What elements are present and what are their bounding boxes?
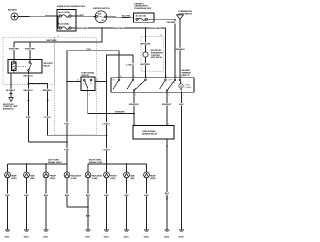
svg-text:BLK: BLK xyxy=(86,195,91,197)
svg-text:IG1: IG1 xyxy=(101,20,104,22)
combination light switch connector xyxy=(177,10,193,19)
label LT BLU on right column xyxy=(102,122,110,125)
svg-text:BLK: BLK xyxy=(44,195,49,197)
right side turn signal bulb (5W) xyxy=(124,164,136,230)
label PUR on riser xyxy=(86,48,92,51)
fuse No.42 (40A) xyxy=(57,23,76,30)
hazard warning switch xyxy=(111,69,194,92)
svg-text:LT BLU: LT BLU xyxy=(103,149,111,151)
label RED/BLK xyxy=(175,48,185,51)
connector tick xyxy=(9,93,12,95)
svg-text:WHT/GRN: WHT/GRN xyxy=(114,28,124,30)
svg-text:RED/BLU: RED/BLU xyxy=(24,76,34,78)
wire WHT/GRN into MICU xyxy=(145,28,147,52)
label WHT/GRN on feed line xyxy=(46,39,57,42)
fuse No.41 (100A) xyxy=(57,11,76,17)
svg-text:8: 8 xyxy=(181,76,182,78)
svg-text:No.42 (40A): No.42 (40A) xyxy=(58,23,69,26)
turn signal switch xyxy=(81,72,95,91)
MICU label xyxy=(151,50,164,59)
label BLK xyxy=(65,194,70,197)
wire right bus xyxy=(88,163,147,165)
label BLK xyxy=(144,194,149,197)
combination switch dashed outline xyxy=(55,38,97,135)
wire indicator ground merge xyxy=(67,206,88,208)
connector marks xyxy=(166,196,168,198)
connector dot xyxy=(166,145,168,147)
svg-text:LT BLU: LT BLU xyxy=(103,123,111,125)
svg-text:LT BLU: LT BLU xyxy=(44,117,52,119)
svg-text:T.4: T.4 xyxy=(57,36,59,38)
wire feed drop left into relay xyxy=(13,42,15,60)
wire YEL/RED fuse No.5 to hazard switch xyxy=(154,19,175,77)
svg-text:BLK: BLK xyxy=(5,195,10,197)
junction merge xyxy=(87,206,89,208)
svg-text:3: 3 xyxy=(168,94,169,96)
fuse No.5 (7.5A) box xyxy=(134,13,155,22)
svg-text:GRN/ORN: GRN/ORN xyxy=(115,112,125,114)
label WHT/RED xyxy=(140,63,151,66)
svg-text:5: 5 xyxy=(166,76,167,78)
svg-text:PUR: PUR xyxy=(64,149,69,151)
svg-text:G402: G402 xyxy=(24,235,30,238)
label RED/BLU xyxy=(43,89,53,92)
wire feed drop right into relay xyxy=(29,42,31,60)
svg-text:L: L xyxy=(83,84,84,86)
wire PUR branch join xyxy=(28,141,67,143)
label BLK xyxy=(44,194,49,197)
left turn indicator bulb (1.4W) xyxy=(64,164,82,207)
left side turn signal bulb (5W) xyxy=(24,164,36,230)
label BLK merged xyxy=(86,214,91,217)
right rear turn signal bulb (21W) xyxy=(144,164,157,230)
svg-text:BLU/YEL: BLU/YEL xyxy=(122,16,132,18)
svg-text:(5W): (5W) xyxy=(30,178,34,180)
label BLK xyxy=(86,194,91,197)
right turn indicator bulb (1.4W) xyxy=(85,164,103,230)
label WHT xyxy=(79,14,85,17)
ground G503 xyxy=(124,230,130,238)
svg-text:PUR: PUR xyxy=(86,49,91,51)
svg-text:BLK: BLK xyxy=(179,104,184,106)
wire PUR column riser to hazard switch xyxy=(67,51,119,164)
wire WHT/GRN drop to hazard switch xyxy=(165,28,167,78)
junction WHT/GRN to MICU xyxy=(145,27,147,29)
wire RED/BLU relay output xyxy=(27,71,29,142)
svg-text:BLK: BLK xyxy=(24,195,29,197)
label BLK xyxy=(5,194,10,197)
ground G401 xyxy=(5,230,11,238)
svg-text:G301: G301 xyxy=(43,236,49,238)
junction GRN/ORN xyxy=(133,113,135,115)
label WHT/GRN xyxy=(150,27,161,30)
svg-text:G401: G401 xyxy=(5,235,11,238)
svg-text:2: 2 xyxy=(135,94,136,96)
junction right column xyxy=(106,81,108,83)
junction xyxy=(106,163,108,165)
svg-text:(1.4W): (1.4W) xyxy=(92,177,98,180)
wire turn signal switch right wire xyxy=(95,81,107,83)
label GRN/ORN xyxy=(129,103,140,106)
right turn signal light group label xyxy=(89,160,103,165)
svg-text:BLK: BLK xyxy=(124,195,129,197)
svg-text:FUSE/RELAY BOX: FUSE/RELAY BOX xyxy=(135,7,153,10)
svg-text:G506: G506 xyxy=(179,236,185,238)
svg-text:PUR: PUR xyxy=(64,123,69,125)
wire WHT/GRN bus from fuse No.42 xyxy=(76,27,166,29)
svg-text:BLK: BLK xyxy=(165,193,170,195)
wire left bus xyxy=(8,163,68,165)
svg-text:RED/BLU: RED/BLU xyxy=(24,90,34,92)
label WHT/GRN xyxy=(9,48,20,51)
ground G301 xyxy=(43,230,49,238)
label BLK xyxy=(179,103,184,106)
junction xyxy=(126,163,128,165)
svg-text:No.5 (7.5A): No.5 (7.5A) xyxy=(136,14,146,17)
svg-text:GRN/ORN: GRN/ORN xyxy=(129,104,139,106)
svg-text:YEL/RED: YEL/RED xyxy=(166,22,175,24)
label BLU/YEL xyxy=(122,14,133,17)
label BLK xyxy=(124,194,129,197)
svg-text:LT BLU: LT BLU xyxy=(126,64,134,66)
driver's under-dash fuse/relay box label xyxy=(135,3,153,10)
svg-text:BLK: BLK xyxy=(65,195,70,197)
wire branch down-left to security relay feed xyxy=(14,28,102,42)
svg-text:4.1: 4.1 xyxy=(160,35,163,37)
svg-text:WHT: WHT xyxy=(79,15,84,17)
svg-text:WHT/GRN: WHT/GRN xyxy=(140,44,150,46)
svg-text:4: 4 xyxy=(89,93,90,95)
svg-text:(21W): (21W) xyxy=(11,178,17,180)
battery xyxy=(8,8,18,20)
svg-text:(21W): (21W) xyxy=(110,178,116,180)
wire branch to right column xyxy=(28,84,47,136)
relay coil in MICU xyxy=(143,52,148,57)
label LT BLU lower xyxy=(102,148,110,151)
label YEL/RED xyxy=(166,21,176,24)
svg-text:(21W): (21W) xyxy=(150,178,156,180)
svg-text:RED/BLK: RED/BLK xyxy=(176,49,186,51)
splice on left column xyxy=(27,100,29,102)
label WHT/GRN xyxy=(140,42,151,45)
label BLK xyxy=(165,192,170,195)
wire BLU/YEL ignition to No.5 fuse xyxy=(106,17,133,18)
security relay xyxy=(8,60,54,74)
wire BLK hazard bulb to ground xyxy=(181,93,183,231)
svg-text:HAZARD RELAY: HAZARD RELAY xyxy=(142,132,158,135)
svg-text:IGNITION SWITCH: IGNITION SWITCH xyxy=(93,8,110,10)
wire LT BLU column riser to hazard switch xyxy=(107,55,134,164)
label LT BLU on riser xyxy=(126,63,134,66)
left front turn signal bulb (21W) xyxy=(43,164,57,230)
svg-text:GRN/WHT: GRN/WHT xyxy=(162,104,173,106)
label GRN/WHT xyxy=(162,103,173,106)
label BLK xyxy=(24,194,29,197)
multiplex control unit connector arrow xyxy=(3,98,18,111)
label BLK xyxy=(104,194,109,197)
svg-text:PUR: PUR xyxy=(26,117,31,119)
label PUR xyxy=(26,116,32,119)
hazard switch contacts xyxy=(112,79,181,92)
under-hood fuse/relay box xyxy=(57,5,86,31)
svg-text:(0.84W): (0.84W) xyxy=(185,87,192,89)
svg-text:WHT/GRN: WHT/GRN xyxy=(77,28,87,30)
wire internal feed between fuses xyxy=(57,16,59,28)
right front turn signal bulb (21W) xyxy=(104,164,118,230)
wire hazard to relay right xyxy=(166,93,168,126)
svg-text:G504: G504 xyxy=(144,235,150,238)
wire RED/BLK combination light switch to hazard switch xyxy=(179,19,181,77)
wire hazard to relay left xyxy=(133,93,135,126)
svg-text:G502: G502 xyxy=(104,236,110,238)
splice on right column xyxy=(47,100,49,102)
junction xyxy=(45,163,47,165)
wire WHT/RED MICU to hazard switch xyxy=(145,57,147,77)
svg-text:(5W): (5W) xyxy=(130,178,134,180)
junction under ignition switch xyxy=(101,27,103,29)
label RED/BLU xyxy=(23,89,33,92)
ground G502 xyxy=(104,230,110,238)
svg-text:(1.4W): (1.4W) xyxy=(71,177,77,180)
svg-text:SWITCH: SWITCH xyxy=(182,75,190,77)
label WHT/GRN xyxy=(114,27,125,30)
svg-text:G501: G501 xyxy=(85,236,91,238)
junction LT BLU xyxy=(106,135,108,137)
svg-text:9: 9 xyxy=(134,76,135,78)
svg-text:1: 1 xyxy=(183,94,184,96)
svg-text:BATTERY: BATTERY xyxy=(8,8,18,11)
svg-text:(21W): (21W) xyxy=(50,178,56,180)
label WHT/GRN xyxy=(25,48,36,51)
svg-text:(DRIVER'S): (DRIVER'S) xyxy=(3,109,14,111)
wire turn signal switch left wire xyxy=(67,81,81,83)
wire BLU/BLK relay to multiplex control unit xyxy=(11,73,14,98)
svg-text:UNIT (MICU): UNIT (MICU) xyxy=(151,57,162,59)
ground G504 xyxy=(144,230,150,238)
svg-text:RELAY: RELAY xyxy=(44,65,51,68)
svg-text:BLU/BLK: BLU/BLK xyxy=(6,90,16,92)
hazard switch illumination bulb xyxy=(179,80,192,92)
svg-text:G505: G505 xyxy=(164,236,170,238)
label WHT/GRN xyxy=(77,27,88,30)
svg-text:7: 7 xyxy=(146,76,147,78)
ground G506 xyxy=(179,230,185,238)
left rear turn signal bulb (21W) xyxy=(5,164,18,230)
label PUR lower xyxy=(64,148,70,151)
wire GRN/ORN from switch pin 4 xyxy=(88,91,134,114)
svg-text:G503: G503 xyxy=(124,236,130,238)
svg-text:WHT/RED: WHT/RED xyxy=(140,64,150,66)
svg-text:UNDER-HOOD FUSE/RELAY BOX: UNDER-HOOD FUSE/RELAY BOX xyxy=(57,5,86,8)
label RED/BLU xyxy=(23,74,33,77)
svg-text:WHT/GRN: WHT/GRN xyxy=(47,40,57,42)
ground G501 xyxy=(85,230,91,238)
ground G505 xyxy=(164,230,170,238)
svg-text:6: 6 xyxy=(176,76,177,78)
junction PUR xyxy=(66,141,68,143)
ground G402 xyxy=(24,230,30,238)
label PUR on left column xyxy=(64,122,70,125)
junction left column xyxy=(66,81,68,83)
svg-text:10: 10 xyxy=(120,76,122,78)
wire LT BLU branch join xyxy=(48,134,107,136)
ignition switch U1 xyxy=(93,8,110,23)
label GRN/ORN xyxy=(115,110,126,113)
junction xyxy=(26,163,28,165)
svg-text:BLK: BLK xyxy=(104,195,109,197)
label BLU/BLK xyxy=(6,89,16,92)
svg-text:WHT/GRN: WHT/GRN xyxy=(9,49,19,51)
svg-text:RED/BLU: RED/BLU xyxy=(43,90,53,92)
wire battery to under-hood box xyxy=(18,15,57,18)
wire BLK relay to ground xyxy=(166,139,168,230)
svg-text:No.41 (100A): No.41 (100A) xyxy=(58,11,70,14)
label LT BLU xyxy=(43,116,51,119)
wire WHT fuse41 to ignition switch xyxy=(76,15,96,17)
driver's under-dash fuse/relay box (dashed outline) xyxy=(3,38,55,85)
multiplex integrated control unit (dashed box) xyxy=(141,35,164,71)
svg-text:WHT/GRN: WHT/GRN xyxy=(150,28,160,30)
turn signal/hazard relay xyxy=(133,126,174,140)
junction split xyxy=(28,83,30,85)
svg-text:WHT/GRN: WHT/GRN xyxy=(25,49,35,51)
left turn signal light group label xyxy=(48,160,62,165)
svg-text:1: 1 xyxy=(162,142,163,144)
svg-text:BLK: BLK xyxy=(144,195,149,197)
